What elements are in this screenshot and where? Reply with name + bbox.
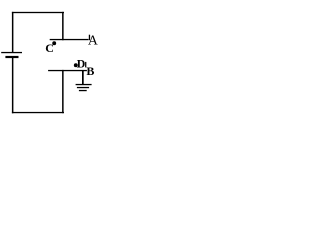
node C dot	[52, 41, 56, 45]
wire right upper	[62, 12, 64, 40]
svg-text:A: A	[88, 33, 98, 48]
background	[0, 0, 102, 116]
wire left lower	[12, 58, 14, 113]
battery BT1 thin plate	[1, 52, 22, 53]
svg-text:B: B	[86, 64, 94, 78]
ground bar 1	[76, 84, 92, 85]
node D dot	[74, 63, 78, 67]
ground bar 3	[79, 90, 87, 91]
wire to terminal B	[48, 70, 87, 71]
ground stub wire	[82, 71, 84, 85]
wire left upper	[12, 12, 14, 52]
terminal tick near D/B	[85, 62, 86, 68]
svg-text:D: D	[77, 57, 86, 71]
svg-text:C: C	[45, 41, 54, 55]
wire top	[12, 12, 64, 13]
wire right lower	[62, 70, 64, 113]
terminal tick at A wire end	[89, 35, 90, 41]
wire bottom	[12, 112, 64, 113]
battery BT1 thick plate	[5, 56, 18, 58]
wire to terminal A	[50, 39, 89, 40]
ground bar 2	[77, 87, 89, 88]
